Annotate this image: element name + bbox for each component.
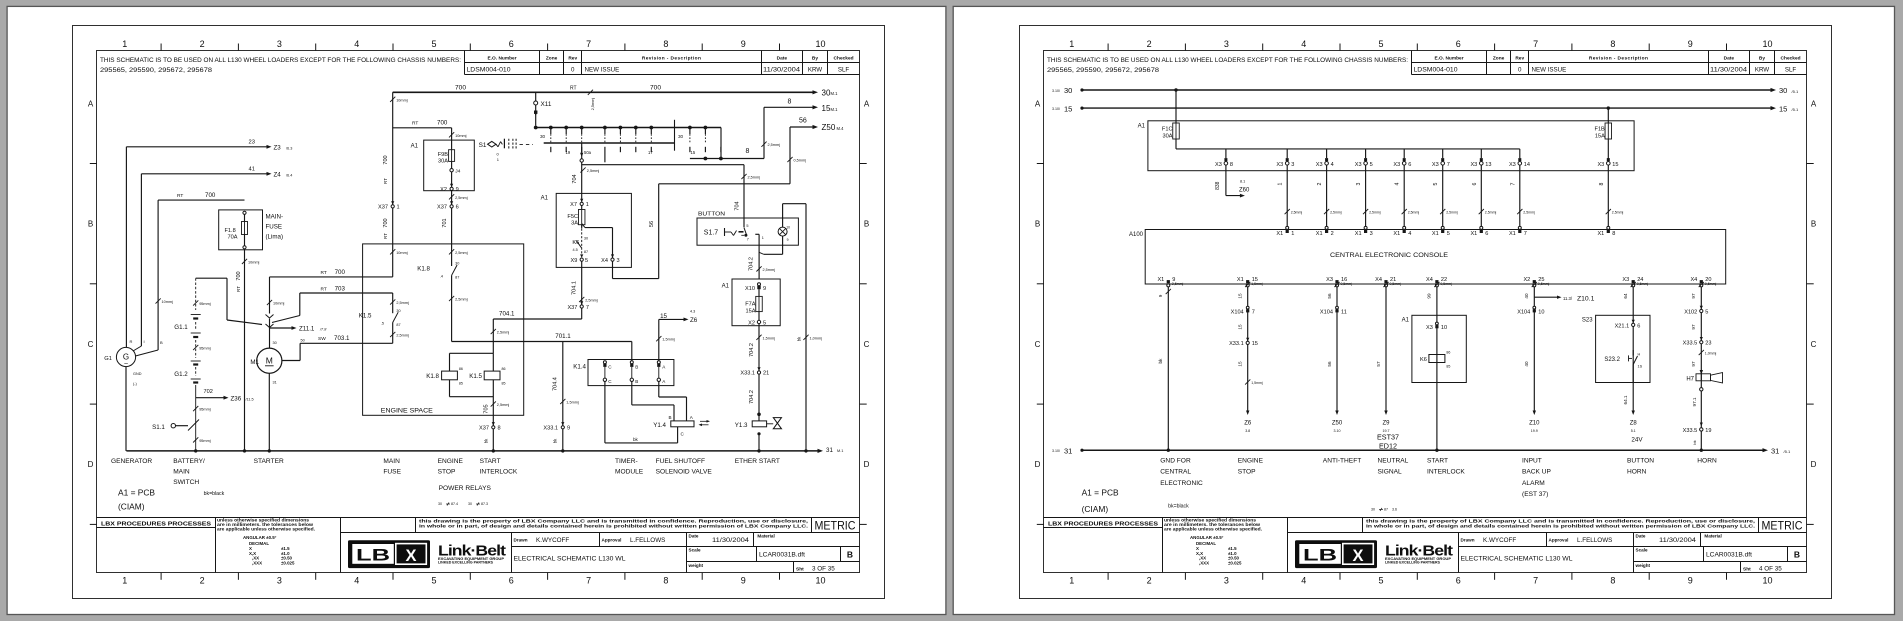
svg-text:Z50: Z50 (822, 123, 836, 132)
svg-text:F1B: F1B (1595, 127, 1606, 133)
svg-text:,XXX: ,XXX (1199, 560, 1209, 565)
svg-text:LDSM004-010: LDSM004-010 (1414, 66, 1459, 73)
svg-text:/6.3: /6.3 (286, 146, 292, 150)
svg-text:X9: X9 (571, 258, 578, 264)
svg-text:8: 8 (746, 148, 750, 155)
svg-text:/5.1: /5.1 (1792, 107, 1799, 112)
svg-text:Z3: Z3 (274, 144, 282, 151)
svg-text:7: 7 (586, 305, 589, 311)
svg-text:,XXX: ,XXX (252, 560, 262, 565)
svg-text:are applicable unless otherwis: are applicable unless otherwise specifie… (1164, 526, 1262, 531)
svg-text:BATTERY/: BATTERY/ (173, 458, 205, 465)
svg-text:LB: LB (1303, 547, 1337, 565)
svg-text:MAIN-: MAIN- (266, 214, 284, 221)
svg-text:M.1: M.1 (831, 107, 839, 112)
svg-text:5: 5 (763, 321, 766, 327)
svg-text:705: 705 (484, 404, 490, 413)
svg-text:X3: X3 (1215, 162, 1222, 168)
svg-text:700: 700 (455, 85, 466, 92)
svg-text:87: 87 (455, 276, 459, 280)
svg-text:57: 57 (1376, 361, 1381, 367)
svg-text:RT: RT (177, 193, 183, 199)
svg-text:6: 6 (456, 205, 459, 211)
svg-text:15: 15 (1612, 162, 1618, 168)
svg-text:Zone: Zone (1493, 55, 1505, 61)
svg-text:LBX PROCEDURES PROCESSES: LBX PROCEDURES PROCESSES (1048, 521, 1159, 527)
svg-text:S23: S23 (1582, 317, 1593, 323)
svg-text:3.6: 3.6 (1392, 507, 1397, 511)
svg-text:1: 1 (1069, 39, 1074, 49)
svg-text:RT: RT (321, 286, 327, 292)
svg-text:0,5mmj: 0,5mmj (1538, 282, 1550, 286)
svg-text:X4: X4 (1375, 277, 1382, 283)
svg-text:19: 19 (1705, 428, 1711, 434)
svg-text:C: C (88, 340, 94, 349)
svg-text:2,5mmj: 2,5mmj (1523, 211, 1535, 215)
svg-text:D: D (88, 460, 94, 469)
svg-text:X3: X3 (1426, 325, 1433, 331)
svg-text:15: 15 (660, 313, 667, 320)
svg-text:A1 = PCB: A1 = PCB (118, 488, 155, 498)
svg-text:(CIAM): (CIAM) (1082, 504, 1109, 514)
svg-text:2,5mmj: 2,5mmj (497, 403, 510, 407)
svg-text:A1: A1 (541, 195, 549, 201)
svg-text:X37: X37 (567, 305, 577, 311)
svg-text:11/30/2004: 11/30/2004 (1710, 67, 1748, 73)
svg-text:X3: X3 (1326, 277, 1333, 283)
svg-text:11/30/2004: 11/30/2004 (763, 67, 801, 73)
svg-text:15: 15 (1238, 324, 1243, 330)
svg-text:H: H (1638, 352, 1641, 356)
svg-text:bk: bk (1158, 358, 1163, 364)
svg-text:INTERLOCK: INTERLOCK (480, 468, 518, 475)
svg-text:0,5mmj: 0,5mmj (1390, 282, 1402, 286)
svg-text:15: 15 (1779, 104, 1787, 113)
svg-text:41: 41 (249, 167, 255, 173)
svg-text:15A: 15A (746, 308, 756, 314)
svg-text:NEUTRAL: NEUTRAL (1378, 457, 1409, 464)
svg-text:LDSM004-010: LDSM004-010 (467, 66, 512, 73)
svg-text:701.1: 701.1 (555, 333, 571, 340)
svg-text:bk=black: bk=black (204, 491, 225, 497)
svg-text:8: 8 (788, 99, 792, 106)
svg-text:METRIC: METRIC (815, 521, 856, 533)
svg-text:2,5mmj: 2,5mmj (497, 331, 510, 335)
svg-text:START: START (1427, 457, 1448, 464)
svg-text:1,5mmj: 1,5mmj (763, 336, 776, 340)
svg-text:CENTRAL ELECTRONIC CONSOLE: CENTRAL ELECTRONIC CONSOLE (1330, 252, 1449, 259)
svg-text:B: B (1794, 550, 1800, 560)
svg-text:31: 31 (1771, 446, 1779, 455)
svg-text:X: X (1352, 547, 1363, 565)
svg-text:2,5mmj: 2,5mmj (1612, 211, 1624, 215)
svg-text:C: C (1035, 340, 1041, 349)
svg-text:STOP: STOP (1238, 469, 1256, 476)
svg-text:E.O. Number: E.O. Number (488, 55, 517, 61)
svg-text:A1: A1 (1402, 317, 1410, 323)
svg-text:704.2: 704.2 (749, 257, 755, 271)
svg-text:87: 87 (396, 323, 400, 327)
svg-text:97: 97 (1691, 324, 1696, 330)
svg-text:703: 703 (335, 285, 346, 292)
svg-text:97.1: 97.1 (1692, 397, 1697, 406)
svg-text:Date: Date (777, 55, 788, 61)
svg-text:10: 10 (815, 576, 825, 586)
svg-text:METRIC: METRIC (1762, 521, 1803, 533)
svg-text:11: 11 (1341, 309, 1347, 315)
svg-text:64.1: 64.1 (1623, 395, 1628, 404)
svg-text:/5.1: /5.1 (1792, 89, 1799, 94)
svg-text:M.1: M.1 (831, 91, 839, 96)
svg-text:ENGINE: ENGINE (438, 458, 464, 465)
svg-text:X1: X1 (1157, 277, 1164, 283)
svg-text:30: 30 (1371, 507, 1375, 511)
svg-text:15: 15 (1238, 361, 1243, 367)
svg-text:56: 56 (799, 118, 807, 125)
svg-text:8: 8 (663, 39, 668, 49)
svg-text:6: 6 (509, 39, 514, 49)
svg-text:M: M (266, 356, 273, 366)
svg-text:M.4: M.4 (837, 126, 845, 131)
svg-text:L.FELLOWS: L.FELLOWS (630, 537, 665, 544)
svg-text:Approval: Approval (602, 538, 622, 543)
svg-text:5: 5 (431, 576, 436, 586)
svg-text:8: 8 (1610, 39, 1615, 49)
svg-text:X3: X3 (1597, 162, 1604, 168)
svg-text:9: 9 (787, 238, 789, 242)
svg-text:X2: X2 (1523, 277, 1530, 283)
svg-text:4: 4 (1331, 162, 1334, 168)
svg-text:KRW: KRW (1755, 66, 1769, 73)
svg-text:30: 30 (1779, 86, 1787, 95)
svg-text:K.WYCOFF: K.WYCOFF (536, 537, 569, 544)
svg-text:X1: X1 (1316, 231, 1323, 237)
svg-text:85: 85 (502, 382, 506, 386)
svg-text:30: 30 (584, 236, 588, 240)
svg-text:SW: SW (318, 336, 326, 342)
svg-text:Sht: Sht (796, 566, 804, 572)
svg-text:LINKED EXCELLING PARTNERS: LINKED EXCELLING PARTNERS (438, 561, 494, 565)
svg-text:2,5mmj: 2,5mmj (1291, 211, 1303, 215)
svg-text:2,5mmj: 2,5mmj (587, 169, 600, 173)
svg-text:ETHER START: ETHER START (735, 458, 780, 465)
svg-text:700: 700 (205, 192, 216, 199)
svg-text:6: 6 (1637, 323, 1640, 329)
svg-text:3.8: 3.8 (1245, 429, 1250, 433)
svg-text:(CIAM): (CIAM) (118, 502, 145, 512)
svg-text:30: 30 (1064, 86, 1072, 95)
svg-text:87: 87 (1384, 507, 1388, 511)
svg-text:RT: RT (383, 178, 388, 184)
svg-text:5: 5 (1378, 576, 1383, 586)
svg-text:9: 9 (1688, 39, 1693, 49)
svg-text:bk=black: bk=black (1168, 504, 1189, 510)
svg-text:TIMER-: TIMER- (615, 458, 638, 465)
svg-text:HORN: HORN (1627, 469, 1647, 476)
svg-text:START: START (480, 458, 501, 465)
svg-text:2,5mmj: 2,5mmj (1369, 211, 1381, 215)
svg-text:295565, 295590, 295672, 295678: 295565, 295590, 295672, 295678 (1047, 67, 1159, 74)
svg-text:30: 30 (468, 502, 472, 506)
svg-text:9: 9 (1688, 576, 1693, 586)
svg-text:10: 10 (786, 225, 790, 229)
svg-text:11.3/: 11.3/ (1563, 296, 1573, 301)
svg-text:X1: X1 (1432, 231, 1439, 237)
svg-text:3: 3 (1356, 182, 1362, 185)
svg-text:15: 15 (1238, 293, 1243, 299)
svg-text:3.10: 3.10 (1334, 429, 1341, 433)
svg-text:31: 31 (826, 447, 833, 454)
svg-text:86: 86 (502, 367, 506, 371)
svg-text:RT: RT (383, 233, 388, 239)
svg-text:X1: X1 (1355, 231, 1362, 237)
svg-text:9: 9 (741, 39, 746, 49)
svg-text:S23.2: S23.2 (1604, 357, 1620, 363)
svg-text:99: 99 (1427, 293, 1432, 299)
svg-text:9: 9 (456, 187, 459, 193)
svg-text:Scale: Scale (1636, 548, 1648, 553)
svg-text:7: 7 (1252, 309, 1255, 315)
svg-text:Z50: Z50 (1332, 421, 1343, 427)
svg-text:Z4: Z4 (274, 171, 282, 178)
svg-text:15: 15 (691, 150, 696, 155)
svg-text:3: 3 (1224, 39, 1229, 49)
svg-text:704.1: 704.1 (571, 281, 577, 295)
svg-text:L.FELLOWS: L.FELLOWS (1577, 537, 1612, 544)
svg-text:THIS SCHEMATIC IS TO BE USED O: THIS SCHEMATIC IS TO BE USED ON ALL L130… (1047, 57, 1408, 64)
svg-text:1: 1 (122, 39, 127, 49)
svg-text:A1: A1 (411, 144, 419, 150)
svg-text:SIGNAL: SIGNAL (1378, 469, 1403, 476)
svg-text:M.1: M.1 (837, 449, 843, 453)
svg-text:S1.7: S1.7 (704, 229, 719, 236)
svg-text:0,5mmj: 0,5mmj (1705, 282, 1717, 286)
svg-text:1: 1 (122, 576, 127, 586)
svg-text:5: 5 (1370, 162, 1373, 168)
svg-text:30: 30 (438, 502, 442, 506)
svg-text:0,5mmj: 0,5mmj (1440, 282, 1452, 286)
svg-text:2,5mmj: 2,5mmj (455, 251, 468, 255)
svg-text:Rev: Rev (568, 55, 577, 61)
svg-text:A: A (864, 100, 870, 109)
svg-text:POWER RELAYS: POWER RELAYS (439, 485, 492, 492)
svg-text:0: 0 (1518, 66, 1522, 73)
svg-text:bk: bk (1692, 440, 1697, 444)
svg-text:3.10/: 3.10/ (1052, 107, 1060, 111)
svg-text:704: 704 (572, 174, 578, 183)
svg-text:STOP: STOP (438, 468, 456, 475)
svg-text:X37: X37 (378, 205, 388, 211)
svg-text:G1.2: G1.2 (174, 371, 188, 378)
svg-text:7: 7 (1533, 576, 1538, 586)
svg-text:Checked: Checked (834, 55, 854, 61)
svg-text:X1: X1 (1597, 231, 1604, 237)
svg-text:B: B (635, 364, 638, 369)
svg-text:2: 2 (1317, 182, 1323, 185)
svg-text:X104: X104 (1231, 309, 1244, 315)
svg-text:1: 1 (397, 205, 400, 211)
svg-text:2,5mmj: 2,5mmj (591, 98, 595, 111)
svg-text:2: 2 (1331, 231, 1334, 237)
svg-text:ED12: ED12 (1379, 441, 1397, 450)
svg-text:3: 3 (277, 39, 282, 49)
svg-text:K1.4: K1.4 (573, 364, 586, 371)
svg-text:4: 4 (354, 576, 359, 586)
svg-text:85: 85 (459, 382, 463, 386)
svg-text:85: 85 (1446, 365, 1450, 369)
svg-text:95mmj: 95mmj (199, 302, 211, 306)
svg-text:in whole or in part, of design: in whole or in part, of design and detai… (419, 523, 808, 528)
svg-text:2,5mmj: 2,5mmj (748, 176, 761, 180)
svg-text:15: 15 (1064, 104, 1072, 113)
svg-text:5: 5 (1378, 39, 1383, 49)
svg-text:I: I (144, 339, 145, 344)
svg-text:INTERLOCK: INTERLOCK (1427, 469, 1465, 476)
svg-text:1,5mmj: 1,5mmj (1251, 282, 1263, 286)
svg-text:13: 13 (1485, 162, 1491, 168)
svg-text:/7.8: /7.8 (319, 328, 327, 332)
svg-text:95mmj: 95mmj (199, 408, 211, 412)
svg-text:BUTTON: BUTTON (1627, 457, 1654, 464)
svg-text:Y1.4: Y1.4 (653, 422, 666, 429)
svg-text:NEW ISSUE: NEW ISSUE (585, 66, 620, 73)
svg-text:SOLENOID VALVE: SOLENOID VALVE (656, 468, 713, 475)
svg-text:8: 8 (1599, 182, 1605, 185)
svg-text:A100: A100 (1129, 232, 1144, 238)
svg-text:87.4: 87.4 (451, 502, 458, 506)
svg-text:11/30/2004: 11/30/2004 (1659, 537, 1697, 544)
svg-text:BUTTON: BUTTON (698, 211, 725, 217)
svg-text:6: 6 (1456, 576, 1461, 586)
svg-text:RT: RT (236, 286, 241, 292)
svg-text:KRW: KRW (808, 66, 822, 73)
svg-text:X33.1: X33.1 (543, 426, 558, 432)
svg-text:Revision - Description: Revision - Description (642, 55, 701, 61)
svg-text:1,0mmj: 1,0mmj (810, 336, 823, 340)
svg-text:50a: 50a (584, 150, 592, 155)
svg-text:8: 8 (498, 426, 501, 432)
svg-text:X104: X104 (1320, 309, 1333, 315)
svg-text:Z9: Z9 (1382, 421, 1390, 427)
svg-text:4: 4 (1301, 576, 1306, 586)
svg-text:X4: X4 (1690, 277, 1697, 283)
svg-text:2: 2 (200, 576, 205, 586)
svg-text:10mmj: 10mmj (273, 302, 285, 306)
svg-text:50: 50 (301, 339, 305, 343)
svg-text:19: 19 (566, 150, 571, 155)
svg-text:2,5mmj: 2,5mmj (396, 334, 409, 338)
svg-text:in whole or in part, of design: in whole or in part, of design and detai… (1366, 523, 1755, 528)
svg-text:Material: Material (1704, 534, 1721, 539)
svg-text:11/30/2004: 11/30/2004 (712, 537, 750, 544)
svg-text:838: 838 (1215, 181, 1221, 190)
svg-text:MAIN: MAIN (383, 458, 400, 465)
svg-text:X104: X104 (1517, 309, 1530, 315)
svg-text:8: 8 (1610, 576, 1615, 586)
svg-text:Y1.3: Y1.3 (735, 422, 748, 429)
svg-text:ANGULAR ±0.5°: ANGULAR ±0.5° (1190, 535, 1224, 540)
svg-text:SWITCH: SWITCH (173, 479, 199, 486)
svg-text:are applicable unless otherwis: are applicable unless otherwise specifie… (217, 526, 315, 531)
svg-text:X3: X3 (1622, 277, 1629, 283)
svg-text:SLF: SLF (1785, 66, 1797, 73)
svg-text:X1: X1 (1237, 277, 1244, 283)
svg-text:RT: RT (412, 121, 418, 127)
svg-text:MAIN: MAIN (173, 468, 190, 475)
svg-text:A1: A1 (1138, 123, 1146, 129)
svg-text:By: By (1759, 55, 1765, 61)
svg-text:B: B (669, 415, 672, 420)
svg-text:6: 6 (1408, 162, 1411, 168)
svg-text:4: 4 (1408, 231, 1411, 237)
svg-text:A1: A1 (722, 284, 730, 290)
svg-text:7: 7 (1510, 182, 1516, 185)
svg-text:K1.8: K1.8 (426, 373, 439, 380)
svg-text:40: 40 (1524, 293, 1529, 299)
svg-text:3.10/: 3.10/ (1052, 89, 1060, 93)
svg-text:7: 7 (586, 39, 591, 49)
svg-text:FUSE: FUSE (266, 224, 283, 231)
svg-text:B: B (847, 550, 853, 560)
svg-text:A: A (1811, 100, 1817, 109)
svg-text:1S: 1S (1638, 365, 1643, 369)
svg-text:70A: 70A (228, 235, 238, 241)
svg-text:1: 1 (1278, 182, 1284, 185)
svg-text:X37: X37 (437, 205, 447, 211)
svg-text:Z10.1: Z10.1 (1577, 295, 1595, 302)
svg-text:704.2: 704.2 (749, 343, 755, 357)
svg-text:X1: X1 (1276, 231, 1283, 237)
svg-text:1: 1 (762, 236, 764, 240)
svg-text:702: 702 (204, 389, 213, 395)
svg-text:9: 9 (567, 426, 570, 432)
svg-text:5: 5 (431, 39, 436, 49)
svg-text:F1.8: F1.8 (225, 228, 236, 234)
svg-text:MODULE: MODULE (615, 468, 644, 475)
svg-text:30: 30 (678, 134, 684, 139)
svg-text:FUEL SHUTOFF: FUEL SHUTOFF (656, 458, 705, 465)
svg-text:4: 4 (1301, 39, 1306, 49)
svg-text:704: 704 (735, 201, 741, 210)
svg-text:2,5mmj: 2,5mmj (1172, 282, 1184, 286)
svg-text:X3: X3 (1432, 162, 1439, 168)
svg-text:2,5mmj: 2,5mmj (1446, 211, 1458, 215)
svg-text:6: 6 (1472, 182, 1478, 185)
svg-text:X11: X11 (541, 101, 552, 108)
svg-text:0,5mmj: 0,5mmj (1637, 282, 1649, 286)
svg-text:1,5mmj: 1,5mmj (1251, 381, 1263, 385)
svg-text:K6: K6 (1420, 357, 1427, 363)
svg-text:23: 23 (1705, 341, 1711, 347)
svg-text:10mmj: 10mmj (396, 251, 408, 255)
svg-text:6: 6 (1485, 231, 1488, 237)
svg-text:10: 10 (1441, 325, 1447, 331)
svg-text:INPUT: INPUT (1522, 457, 1542, 464)
svg-text:(Lima): (Lima) (266, 234, 284, 241)
svg-text:87: 87 (584, 250, 588, 254)
svg-text:56: 56 (1327, 293, 1332, 299)
svg-text:1: 1 (1069, 576, 1074, 586)
svg-text:5: 5 (585, 258, 588, 264)
svg-text:95mmj: 95mmj (199, 439, 211, 443)
svg-text:Sht: Sht (1743, 566, 1751, 572)
svg-text:1,5mmj: 1,5mmj (566, 401, 579, 405)
svg-text:K1.5: K1.5 (469, 373, 482, 380)
svg-text:X21.1: X21.1 (1615, 323, 1630, 329)
svg-text:10mmj: 10mmj (248, 260, 260, 264)
svg-text:14: 14 (1524, 162, 1530, 168)
svg-text:weight: weight (688, 563, 704, 568)
